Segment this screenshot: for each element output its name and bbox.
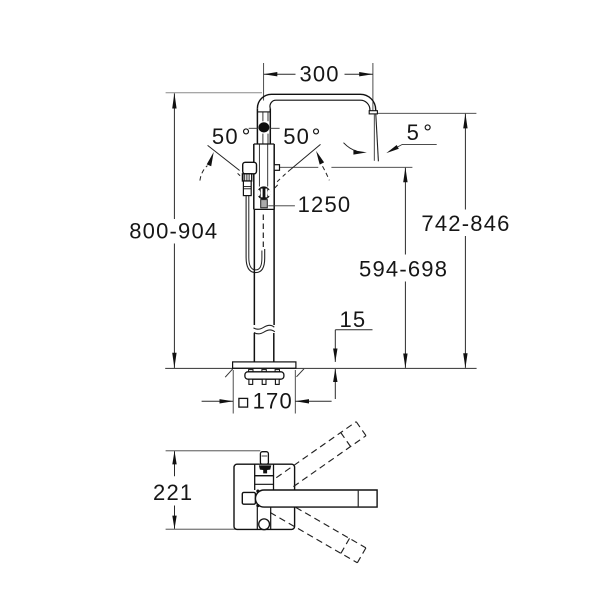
cylinder top joint line [257, 111, 270, 113]
spout aerator [369, 111, 377, 114]
mounting kit screw nubs [249, 370, 253, 372]
plan spout cap corner dots [256, 490, 259, 493]
mounting kit legs [249, 379, 253, 384]
left 50deg ray [208, 145, 240, 170]
right 50deg ray dashes [283, 174, 286, 177]
hand shower holder [243, 162, 257, 174]
5deg leader [398, 144, 437, 147]
dim 742-846 arrow down [463, 353, 467, 368]
dim 15 line below floor [334, 369, 336, 399]
svg-text:742-846: 742-846 [421, 211, 510, 236]
hose outlet knob [257, 186, 270, 199]
shower hose inner wall [249, 196, 262, 270]
svg-text:594-698: 594-698 [359, 256, 448, 281]
svg-text:°: ° [423, 120, 433, 145]
mounting kit bar [245, 372, 284, 379]
dim 170 square symbol [239, 398, 248, 407]
spout inner outline [270, 100, 370, 111]
knob stem [261, 200, 268, 208]
dim 221 extension bottom [166, 528, 237, 530]
break symbol wave 2 [254, 330, 275, 334]
plan spout bar with round cap [255, 490, 377, 507]
5deg right arrow [386, 145, 399, 153]
dim 594-698 extension line [280, 166, 319, 168]
svg-text:15: 15 [339, 307, 366, 332]
dim 594-698 arrow up [403, 167, 407, 182]
handle ball (black) [259, 122, 270, 132]
svg-text:1250: 1250 [298, 192, 352, 217]
dim 221 arrow down [172, 516, 176, 530]
dim 300 arrow left [264, 72, 278, 76]
plan spout aerator tick [357, 491, 359, 507]
riser / top cylinder left edge [256, 108, 258, 144]
dim 800-904 line [173, 93, 175, 219]
svg-text:°: ° [242, 124, 252, 149]
left 50deg ray dash [238, 173, 241, 175]
dim 15 shelf [335, 329, 372, 331]
hose hidden behind column (dashed) [262, 212, 264, 247]
svg-text:°: ° [312, 124, 322, 149]
5deg left arc [344, 143, 357, 151]
plan hose outlet circle [259, 519, 270, 530]
dim 300 line [264, 73, 296, 75]
plan lever handle [242, 492, 255, 504]
dim 742-846 arrow up [463, 113, 467, 128]
dim 742-846 line [464, 114, 466, 210]
plan shower tip above plate [260, 452, 268, 465]
left 50deg arc [200, 166, 208, 181]
svg-text:800-904: 800-904 [129, 218, 218, 243]
dim 221 extension top [166, 450, 261, 452]
dim 170 extension left [232, 370, 234, 414]
body right edge [273, 144, 275, 209]
riser / top cylinder right edge [269, 108, 271, 144]
plan swivel arm lower (dashed) [270, 502, 366, 563]
svg-text:50: 50 [212, 124, 239, 149]
floor line [165, 367, 476, 369]
body shading lines [258, 145, 260, 187]
5deg left arrow [353, 150, 366, 154]
dim 15 line above floor [334, 330, 336, 362]
svg-text:300: 300 [299, 62, 339, 87]
dim 170 line left [202, 400, 234, 402]
svg-text:170: 170 [253, 388, 293, 413]
dim 170 extension right [294, 370, 296, 414]
dim 170 line right [295, 400, 331, 402]
svg-text:50: 50 [283, 124, 310, 149]
5deg tilted stream line [376, 114, 379, 161]
spout outer outline [257, 94, 375, 110]
leader for 1250 [268, 205, 295, 207]
cylinder shading lines [262, 112, 264, 121]
svg-text:221: 221 [153, 480, 193, 505]
body left edge [253, 144, 255, 209]
column seam line [254, 208, 274, 210]
dim 300 arrow right [359, 72, 373, 76]
body top line (shoulder) [254, 143, 274, 145]
floor hatch right [297, 369, 305, 377]
plan shower head block [255, 464, 274, 476]
dim 300 extension line left [263, 63, 265, 101]
plan column below bar [256, 507, 258, 529]
break symbol wave 1 [254, 325, 275, 329]
5deg vertical reference line [373, 114, 375, 161]
dim 300 extension line right [372, 63, 374, 111]
left 50deg arrow [207, 152, 214, 166]
plan column bands [255, 475, 274, 477]
dim 221 line [174, 451, 176, 476]
right side tab [274, 165, 279, 171]
right 50deg arc [323, 166, 330, 180]
base plate [233, 362, 296, 368]
hand shower head [242, 174, 251, 181]
dim 800-904 arrow up [172, 93, 176, 109]
leader from left 50deg label to ball [249, 127, 259, 129]
shower hose outer wall [246, 196, 265, 273]
dim 800-904 extension line [166, 92, 262, 94]
plan swivel arm upper (dashed) [276, 422, 366, 487]
dim 15 arrow up [333, 369, 337, 383]
plan base plate [234, 464, 295, 529]
dim 742-846 extension line [377, 112, 476, 114]
hand shower handle [243, 181, 251, 196]
floor hatch left [225, 369, 233, 377]
svg-text:5: 5 [407, 120, 420, 145]
dim 221 arrow up [172, 451, 176, 465]
right 50deg arrow [316, 151, 324, 165]
dim 594-698 arrow down [403, 354, 407, 369]
dim 594-698 line [404, 168, 406, 255]
leader from right 50deg label to ball [270, 127, 280, 129]
column mid section edges [253, 209, 255, 325]
right 50deg ray [288, 144, 321, 171]
plan shower head black detail [259, 465, 271, 473]
dim 15 arrow down [333, 349, 337, 363]
dim 800-904 arrow down [172, 353, 176, 368]
dim 170 arrow left [220, 399, 234, 403]
column lower section edges [253, 333, 255, 362]
dim 170 arrow right [295, 399, 309, 403]
